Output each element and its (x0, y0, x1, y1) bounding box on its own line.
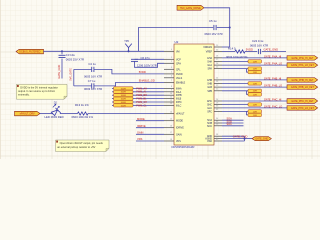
junction VM/C3 (61, 50, 63, 52)
pin GND stub (214, 135, 222, 137)
svg-text:12: 12 (170, 100, 172, 102)
svg-text:SHC: SHC (207, 105, 212, 107)
svg-text:VDS: VDS (137, 137, 143, 141)
svg-text:14: 14 (170, 111, 172, 113)
wire VREF (222, 51, 235, 53)
svg-text:10R: 10R (253, 115, 257, 117)
svg-text:GLA: GLA (207, 64, 212, 67)
svg-text:GATE_PHB_HI: GATE_PHB_HI (264, 76, 282, 80)
wire C7 row left (74, 85, 92, 87)
resistor R2 PWM_AH (114, 87, 134, 91)
svg-text:C4 1u: C4 1u (88, 62, 96, 66)
svg-text:10R: 10R (253, 91, 257, 93)
pin SHC stub (214, 104, 222, 106)
wire C4 row right and jog to DVDD (94, 69, 164, 74)
wire SHB (222, 82, 248, 84)
wire GND vertical join (244, 136, 246, 141)
svg-text:DCBUS_FILTERED: DCBUS_FILTERED (19, 51, 40, 54)
wire 5V0 top (204, 8, 230, 47)
pin VREF stub (214, 51, 222, 53)
wire 5VDD (245, 51, 257, 53)
note 1 DVDD (16, 84, 67, 99)
svg-text:0603 100mW 5%: 0603 100mW 5% (226, 55, 248, 59)
svg-text:GATE_PHC_LO: GATE_PHC_LO (264, 104, 282, 108)
svg-text:9: 9 (171, 90, 172, 92)
pin GHC stub (214, 100, 222, 102)
svg-text:C3 10u: C3 10u (66, 53, 75, 57)
pin SPB stub (214, 90, 222, 92)
svg-text:ENABLE_GD: ENABLE_GD (139, 79, 155, 83)
background sheet (0, 0, 320, 159)
svg-text:7: 7 (171, 80, 172, 82)
svg-text:10R: 10R (253, 94, 257, 96)
svg-text:GATE_GND: GATE_GND (233, 134, 248, 138)
resistor R18 SHB (248, 82, 262, 86)
pin SPA stub (214, 68, 222, 70)
pin IDRIVE stub (164, 127, 174, 129)
svg-text:PWM_CL: PWM_CL (136, 104, 147, 107)
svg-text:GATE_PHB_LO: GATE_PHB_LO (264, 84, 282, 88)
pin INLB stub (164, 98, 174, 100)
svg-text:SPC: SPC (207, 111, 212, 113)
svg-text:VREF: VREF (206, 52, 213, 54)
pin INHB stub (164, 94, 174, 96)
svg-text:22: 22 (216, 85, 218, 87)
wire AGND pin (222, 138, 245, 140)
wire VDS (136, 140, 164, 142)
svg-text:an external pull-up resistor t: an external pull-up resistor to +5V (57, 145, 95, 149)
wire CPH via C6 (135, 61, 165, 67)
pin GHA stub (214, 57, 222, 59)
wire VM net (44, 50, 165, 52)
port GATE_PHB_HI_FET (287, 78, 318, 83)
wire GHB (222, 79, 287, 81)
wire GND pin (222, 135, 245, 137)
resistor R4 PWM_BH (114, 94, 134, 98)
testpoint TP6 (125, 44, 132, 52)
svg-text:10R: 10R (253, 104, 257, 106)
svg-text:0603 16V X7R: 0603 16V X7R (205, 32, 223, 36)
svg-text:INLA: INLA (176, 91, 182, 94)
svg-text:20: 20 (216, 99, 218, 101)
svg-text:ENABLE: ENABLE (176, 81, 186, 84)
pin ENABLE stub (164, 81, 174, 83)
svg-text:VGLS: VGLS (176, 78, 183, 80)
svg-text:C7 1u: C7 1u (88, 79, 96, 83)
pin CPL stub (164, 68, 174, 70)
svg-text:0603 16V X7R: 0603 16V X7R (84, 87, 102, 91)
port GATE_PHC_LO_FET (287, 106, 318, 111)
wire PWM_AL (133, 91, 164, 93)
capacitor C6 (131, 59, 138, 61)
port GATE_PHA_HI_FET (287, 56, 318, 61)
svg-text:3: 3 (171, 67, 172, 69)
resistor R21 SHC (248, 103, 262, 107)
wire GLB (222, 86, 287, 88)
pin SHB stub (214, 82, 222, 84)
svg-text:10R: 10R (253, 72, 257, 74)
svg-text:5V0_GATE_DRIVE: 5V0_GATE_DRIVE (180, 7, 201, 10)
svg-text:GATE_GND: GATE_GND (264, 48, 279, 52)
wire nFAULT port to LED (40, 113, 51, 115)
pin SPC stub (214, 110, 222, 112)
svg-text:SHA: SHA (207, 60, 212, 63)
svg-text:17: 17 (170, 132, 172, 134)
svg-text:LED 0603 RED: LED 0603 RED (45, 115, 64, 119)
junction VM/TP6 (127, 50, 129, 52)
pin INLA stub (164, 91, 174, 93)
svg-text:41: 41 (216, 139, 218, 141)
svg-text:19: 19 (216, 102, 218, 104)
resistor R3 PWM_AL (114, 90, 134, 94)
junction 5V0/C5 (229, 26, 231, 28)
svg-text:5VDD: 5VDD (139, 70, 146, 74)
wire SNA branch (247, 69, 249, 73)
svg-text:10R: 10R (253, 61, 257, 63)
svg-text:nFAULT: nFAULT (176, 113, 185, 116)
wire SPB (222, 90, 248, 92)
pin GLB stub (214, 86, 222, 88)
wire PWM_CL (133, 104, 164, 106)
svg-text:GATE_PHB_LO_FET: GATE_PHB_LO_FET (291, 86, 314, 89)
resistor R7 PWM_CL (114, 104, 134, 108)
wire ladder left vertical (73, 69, 75, 86)
capacitor C5 (214, 25, 216, 30)
svg-text:INHB: INHB (176, 95, 182, 97)
pin VM stub (164, 50, 174, 52)
svg-text:1: 1 (171, 61, 172, 63)
wire GLA (222, 64, 287, 66)
resistor R20 SNB (248, 93, 262, 97)
svg-text:GATE_PHB_HI_FET: GATE_PHB_HI_FET (291, 79, 314, 82)
svg-text:C6 47n: C6 47n (141, 56, 150, 60)
svg-text:output. It can source up to 10: output. It can source up to 10mA (18, 89, 55, 93)
svg-text:INHA: INHA (176, 87, 182, 90)
wire R13 to nFAULT pin (88, 113, 164, 115)
port P3 nFAULT (15, 111, 41, 116)
wire PWM_AH stub left (112, 87, 114, 89)
wire C3 top lead (61, 51, 63, 54)
wire SHA (222, 60, 248, 62)
capacitor C7 (92, 83, 94, 88)
wire C5 right lead (217, 27, 230, 29)
pin GLA stub (214, 64, 222, 66)
svg-text:0603 25V X7R: 0603 25V X7R (66, 57, 84, 61)
svg-text:CPH: CPH (176, 63, 181, 65)
svg-text:GLC: GLC (207, 108, 212, 110)
resistor R15 SHA (248, 60, 262, 64)
pin SOB stub (214, 122, 222, 124)
svg-text:PAD: PAD (207, 140, 212, 143)
svg-text:29: 29 (216, 45, 218, 47)
svg-text:DVDD is the 5V internal regula: DVDD is the 5V internal regulator (20, 86, 58, 90)
svg-text:INLC: INLC (176, 105, 182, 107)
svg-text:CPL: CPL (176, 69, 181, 71)
svg-text:18: 18 (170, 139, 172, 141)
svg-text:27: 27 (216, 59, 218, 61)
svg-text:nFAULT_DRV: nFAULT_DRV (20, 113, 35, 116)
wire PWM_AH (133, 87, 164, 89)
svg-text:1206 100V X7R: 1206 100V X7R (137, 63, 157, 67)
wire PWM_AL stub left (112, 91, 114, 93)
wire PWM_BL (133, 98, 164, 100)
pin GHB stub (214, 79, 222, 81)
svg-text:MODE: MODE (137, 117, 145, 121)
svg-text:DVDD: DVDD (176, 74, 183, 76)
svg-text:SPA: SPA (208, 68, 213, 71)
svg-text:35: 35 (216, 121, 218, 123)
wire SOC (222, 125, 244, 127)
resistor R19 SPB (248, 89, 262, 93)
svg-text:VDS: VDS (176, 141, 181, 143)
wire C7 row right and jog to ENABLE (94, 82, 164, 86)
svg-text:C22 0.1u: C22 0.1u (252, 39, 264, 43)
svg-text:INHC: INHC (176, 102, 182, 104)
svg-text:10: 10 (170, 93, 172, 95)
wire GHA (222, 57, 287, 59)
svg-text:VDRAIN: VDRAIN (203, 46, 212, 49)
svg-text:SOC: SOC (227, 123, 233, 126)
port P1 5V0_GATE_DRIVE (177, 5, 204, 10)
svg-text:25: 25 (216, 66, 218, 68)
wire GHC (222, 100, 287, 102)
pin INLC stub (164, 104, 174, 106)
wire GND to port (245, 138, 253, 140)
wire SPA (222, 68, 248, 70)
svg-text:32: 32 (216, 109, 218, 111)
wire GLC (222, 107, 287, 109)
svg-text:4: 4 (171, 49, 172, 51)
wire PAD pin (222, 140, 245, 142)
svg-text:16: 16 (170, 126, 172, 128)
port GATE_PHC_HI_FET (287, 99, 318, 104)
svg-text:28: 28 (216, 56, 218, 58)
sheet border left (0, 0, 1, 159)
svg-text:GATE_PHC_HI: GATE_PHC_HI (264, 97, 282, 101)
resistor R23 SNC (248, 113, 262, 117)
wire LED to R13 (68, 113, 78, 115)
wire PWM_BH (133, 94, 164, 96)
svg-text:0603 16V X7R: 0603 16V X7R (250, 44, 268, 48)
svg-text:C5 1u: C5 1u (209, 19, 217, 23)
svg-text:30: 30 (216, 49, 218, 51)
svg-text:26: 26 (216, 63, 218, 65)
svg-text:6: 6 (171, 76, 172, 78)
svg-text:R14 0: R14 0 (228, 46, 236, 50)
capacitor C22 (258, 49, 260, 54)
svg-text:GATE_PHC_LO_FET: GATE_PHC_LO_FET (291, 107, 315, 110)
svg-text:R13 1k 1%: R13 1k 1% (75, 103, 89, 107)
svg-text:TP6: TP6 (124, 40, 129, 43)
svg-text:GATE_PHA_HI: GATE_PHA_HI (264, 54, 282, 58)
port P2 DCBUS_FILTERED (16, 49, 44, 54)
wire PWM_CL stub left (112, 104, 114, 106)
svg-text:GATE_PHA_LO_FET: GATE_PHA_LO_FET (291, 64, 314, 67)
pin SHA stub (214, 60, 222, 62)
svg-text:GHA: GHA (207, 57, 212, 60)
pin GLC stub (214, 107, 222, 109)
wire GAIN (136, 133, 164, 135)
wire VDRAIN (222, 46, 230, 48)
port GATE_PHA_LO_FET (287, 63, 318, 68)
svg-text:SOC: SOC (207, 126, 212, 128)
op-amp U2 body (174, 44, 214, 145)
pin DVDD stub (164, 73, 174, 75)
wire SNB branch (247, 91, 249, 95)
wire C4 row left (74, 68, 92, 70)
LED D2 (51, 104, 69, 115)
svg-text:MODE: MODE (176, 121, 183, 123)
pin SOC stub (214, 125, 222, 127)
svg-text:13: 13 (170, 103, 172, 105)
grid major (0, 0, 320, 159)
svg-text:GATE_GND: GATE_GND (255, 138, 268, 141)
svg-text:0603 100mW 1%: 0603 100mW 1% (72, 115, 94, 119)
svg-text:5VDD: 5VDD (246, 48, 253, 52)
svg-text:IDRIVE: IDRIVE (137, 124, 146, 128)
svg-text:Open-Drain nFAULT output, pin: Open-Drain nFAULT output, pin needs (60, 141, 104, 145)
pin VDRAIN stub (214, 46, 222, 48)
wire PWM_CH (133, 101, 164, 103)
note 2 nFAULT (56, 140, 110, 152)
svg-text:GAIN: GAIN (137, 131, 143, 135)
resistor R16 SPA (248, 67, 262, 71)
svg-text:GAIN: GAIN (176, 133, 182, 136)
svg-text:21: 21 (216, 89, 218, 91)
svg-text:GHC: GHC (207, 101, 212, 103)
wire VCP (135, 58, 165, 60)
wire C5 left lead to VM (139, 28, 214, 52)
svg-text:GLB: GLB (207, 87, 212, 89)
svg-text:GATE_GND: GATE_GND (57, 65, 61, 79)
pin INHC stub (164, 101, 174, 103)
wire PWM_BH stub left (112, 94, 114, 96)
svg-text:11: 11 (170, 96, 172, 98)
svg-text:SOB: SOB (207, 123, 212, 125)
pin INHA stub (164, 87, 174, 89)
svg-text:VM: VM (176, 51, 180, 53)
svg-text:100R: 100R (121, 105, 127, 107)
svg-text:SHB: SHB (207, 83, 212, 85)
svg-text:VCP: VCP (176, 59, 181, 61)
svg-text:5V0_GATE: 5V0_GATE (69, 68, 72, 81)
resistor R22 SPC (248, 110, 262, 114)
svg-text:SOA: SOA (207, 119, 212, 122)
svg-text:36: 36 (216, 124, 218, 126)
wire IDRIVE (136, 127, 164, 129)
svg-text:2: 2 (171, 57, 172, 59)
wire SOA (222, 119, 244, 121)
resistor R14 (235, 50, 245, 53)
resistor R5 PWM_BL (114, 97, 134, 101)
svg-text:GATE_PHA_LO: GATE_PHA_LO (264, 62, 282, 66)
wire PWM_CH stub left (112, 101, 114, 103)
pin PAD stub (214, 140, 222, 142)
pin CPH stub (164, 62, 174, 64)
svg-text:IDRIVE: IDRIVE (176, 128, 184, 130)
wire GATE_GND C22 (262, 51, 286, 53)
svg-text:GATE_PHC_HI_FET: GATE_PHC_HI_FET (291, 100, 314, 103)
svg-text:34: 34 (216, 118, 218, 120)
resistor R13 (78, 112, 89, 115)
junction GND (243, 138, 245, 140)
svg-text:10R: 10R (253, 83, 257, 85)
pin MODE stub (164, 120, 174, 122)
wire SPC (222, 110, 248, 112)
svg-text:8: 8 (171, 86, 172, 88)
svg-text:5: 5 (171, 72, 172, 74)
port GATE_PHB_LO_FET (287, 85, 318, 90)
pin VCP stub (164, 58, 174, 60)
svg-text:33: 33 (216, 106, 218, 108)
svg-text:23: 23 (216, 81, 218, 83)
pin AGND stub (214, 138, 222, 140)
port GATE_GND (252, 137, 271, 141)
wire PWM_BL stub left (112, 98, 114, 100)
grid minor (0, 0, 320, 159)
svg-text:INLB: INLB (176, 99, 182, 101)
capacitor C3 (59, 55, 66, 57)
svg-text:DRV8353RSRGZR: DRV8353RSRGZR (172, 145, 195, 149)
pin GAIN stub (164, 133, 174, 135)
svg-text:15: 15 (170, 119, 172, 121)
wire SNC branch (247, 111, 249, 115)
resistor R17 SNA (248, 70, 262, 74)
pin VGLS stub (164, 77, 174, 79)
pin nFAULT stub (164, 113, 174, 115)
wire SOB (222, 122, 244, 124)
svg-text:SPB: SPB (207, 91, 212, 93)
svg-text:U2: U2 (175, 40, 179, 44)
svg-text:GHB: GHB (207, 80, 212, 82)
svg-text:24: 24 (216, 78, 218, 80)
svg-text:GATE_PHA_HI_FET: GATE_PHA_HI_FET (291, 57, 314, 60)
pin VDS stub (164, 140, 174, 142)
svg-text:externally.: externally. (18, 92, 30, 96)
wire MODE (136, 120, 164, 122)
wire C3 bottom lead GATE_GND (61, 59, 63, 79)
svg-text:0603 16V X7R: 0603 16V X7R (84, 74, 102, 78)
resistor R6 PWM_CH (114, 100, 134, 104)
capacitor C4 (92, 67, 94, 72)
wire SHC (222, 104, 248, 106)
pin SOA stub (214, 119, 222, 121)
